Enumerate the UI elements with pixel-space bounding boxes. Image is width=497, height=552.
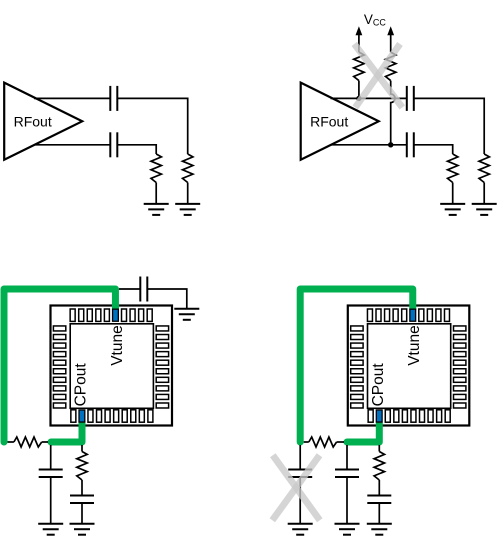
- resistor R4 (pull-up to VCC): [386, 52, 396, 81]
- wire C6 to ground: [50, 477, 52, 524]
- wire R5 to ground: [452, 183, 454, 204]
- svg-text:Vtune: Vtune: [406, 325, 423, 366]
- wire CPout jog (green, U3): [51, 423, 82, 442]
- wire RFout+ to C3: [331, 97, 407, 99]
- ground (C6): [38, 524, 63, 535]
- resistor R9 (loop filter): [304, 441, 309, 443]
- svg-text:Vtune: Vtune: [109, 325, 126, 366]
- IC U3 pins (white): [53, 309, 168, 422]
- wire RFout- to C2: [34, 144, 110, 146]
- wire R4 to node B (hop over RFout+ line): [391, 81, 395, 145]
- ground (C7): [70, 524, 95, 535]
- wire CPout jog (green, U4): [347, 423, 379, 442]
- capacitor C4: [407, 132, 414, 157]
- IC U4 pins (white): [351, 309, 466, 422]
- node A (junction dot on RFout+ line): [356, 96, 361, 101]
- wire C5 to ground: [147, 289, 187, 309]
- ground (R5): [440, 204, 465, 215]
- resistor R1: [151, 154, 161, 183]
- ground (R6): [472, 204, 497, 215]
- capacitor C5 (Vtune bypass): [140, 277, 147, 302]
- wire R6 to ground: [483, 183, 485, 204]
- wire C9 to ground: [299, 477, 301, 524]
- resistor R2: [183, 154, 193, 183]
- resistor R10 (loop filter): [378, 445, 380, 452]
- resistor R3 (pull-up to VCC): [354, 52, 364, 81]
- wire C11 to ground: [378, 503, 380, 524]
- X mark (pull-ups not recommended): [354, 44, 402, 108]
- wire RFout+ to C1: [34, 97, 110, 99]
- ground (C11): [367, 524, 392, 535]
- IC U4 (QFN package body): [348, 306, 470, 426]
- svg-text:RFout: RFout: [14, 113, 52, 129]
- wire C1 to R2: [117, 98, 187, 154]
- power arrow VCC (right): [387, 26, 394, 35]
- pin CPout (U4, blue): [376, 410, 382, 422]
- resistor R7 (loop filter): [8, 441, 14, 443]
- ground (R2): [175, 204, 200, 215]
- capacitor C3: [407, 86, 414, 111]
- wire Vtune loop (green, U4): [300, 289, 413, 442]
- node B (junction dot on RFout- line): [388, 142, 393, 147]
- resistor R5: [448, 154, 458, 183]
- capacitor C9 (crossed out): [288, 470, 312, 478]
- wire R10 to C11: [378, 480, 380, 496]
- op-amp U1 (RF output buffer): [4, 83, 82, 160]
- pin Vtune (U4, blue): [410, 309, 416, 321]
- svg-text:CPout: CPout: [73, 363, 90, 407]
- power arrow VCC (left): [356, 26, 363, 35]
- ground (R1): [144, 204, 169, 215]
- svg-text:CPout: CPout: [370, 363, 387, 407]
- wire R8 to C7: [81, 480, 83, 496]
- wire R2 to ground: [187, 183, 189, 204]
- ground (C9): [288, 524, 313, 535]
- wire node D to C9 (crossed out): [299, 445, 301, 470]
- wire R1 to ground: [155, 183, 157, 204]
- wire R3 to node A: [358, 81, 360, 99]
- wire C2 to R1: [117, 145, 156, 154]
- wire node C to C6: [50, 445, 52, 470]
- resistor R6: [479, 154, 489, 183]
- svg-text:RFout: RFout: [310, 113, 348, 129]
- capacitor C11 (loop filter): [367, 496, 391, 504]
- wire node E to C10: [346, 445, 348, 470]
- X mark (C9 not recommended): [272, 455, 320, 520]
- ground (C5): [174, 309, 199, 320]
- wire C4 to R5: [414, 145, 453, 154]
- capacitor C2: [110, 132, 117, 157]
- wire C7 to ground: [81, 503, 83, 524]
- wire C10 to ground: [346, 477, 348, 524]
- IC U3 (QFN package body): [51, 306, 173, 426]
- resistor R8 (loop filter): [81, 445, 83, 452]
- wire C3 to R6: [414, 98, 484, 154]
- capacitor C7 (loop filter): [70, 496, 94, 504]
- op-amp U2 (RF output buffer): [301, 83, 379, 160]
- pin Vtune (U3, blue): [113, 309, 119, 321]
- ground (C10): [335, 524, 360, 535]
- capacitor C10 (loop filter): [335, 470, 359, 478]
- wire Vtune to C5: [119, 288, 140, 290]
- pin CPout (U3, blue): [79, 410, 85, 422]
- wire Vtune loop (green, U3): [4, 289, 115, 442]
- capacitor C6 (loop filter): [39, 470, 63, 478]
- capacitor C1: [110, 86, 117, 111]
- wire RFout- to C4: [331, 144, 407, 146]
